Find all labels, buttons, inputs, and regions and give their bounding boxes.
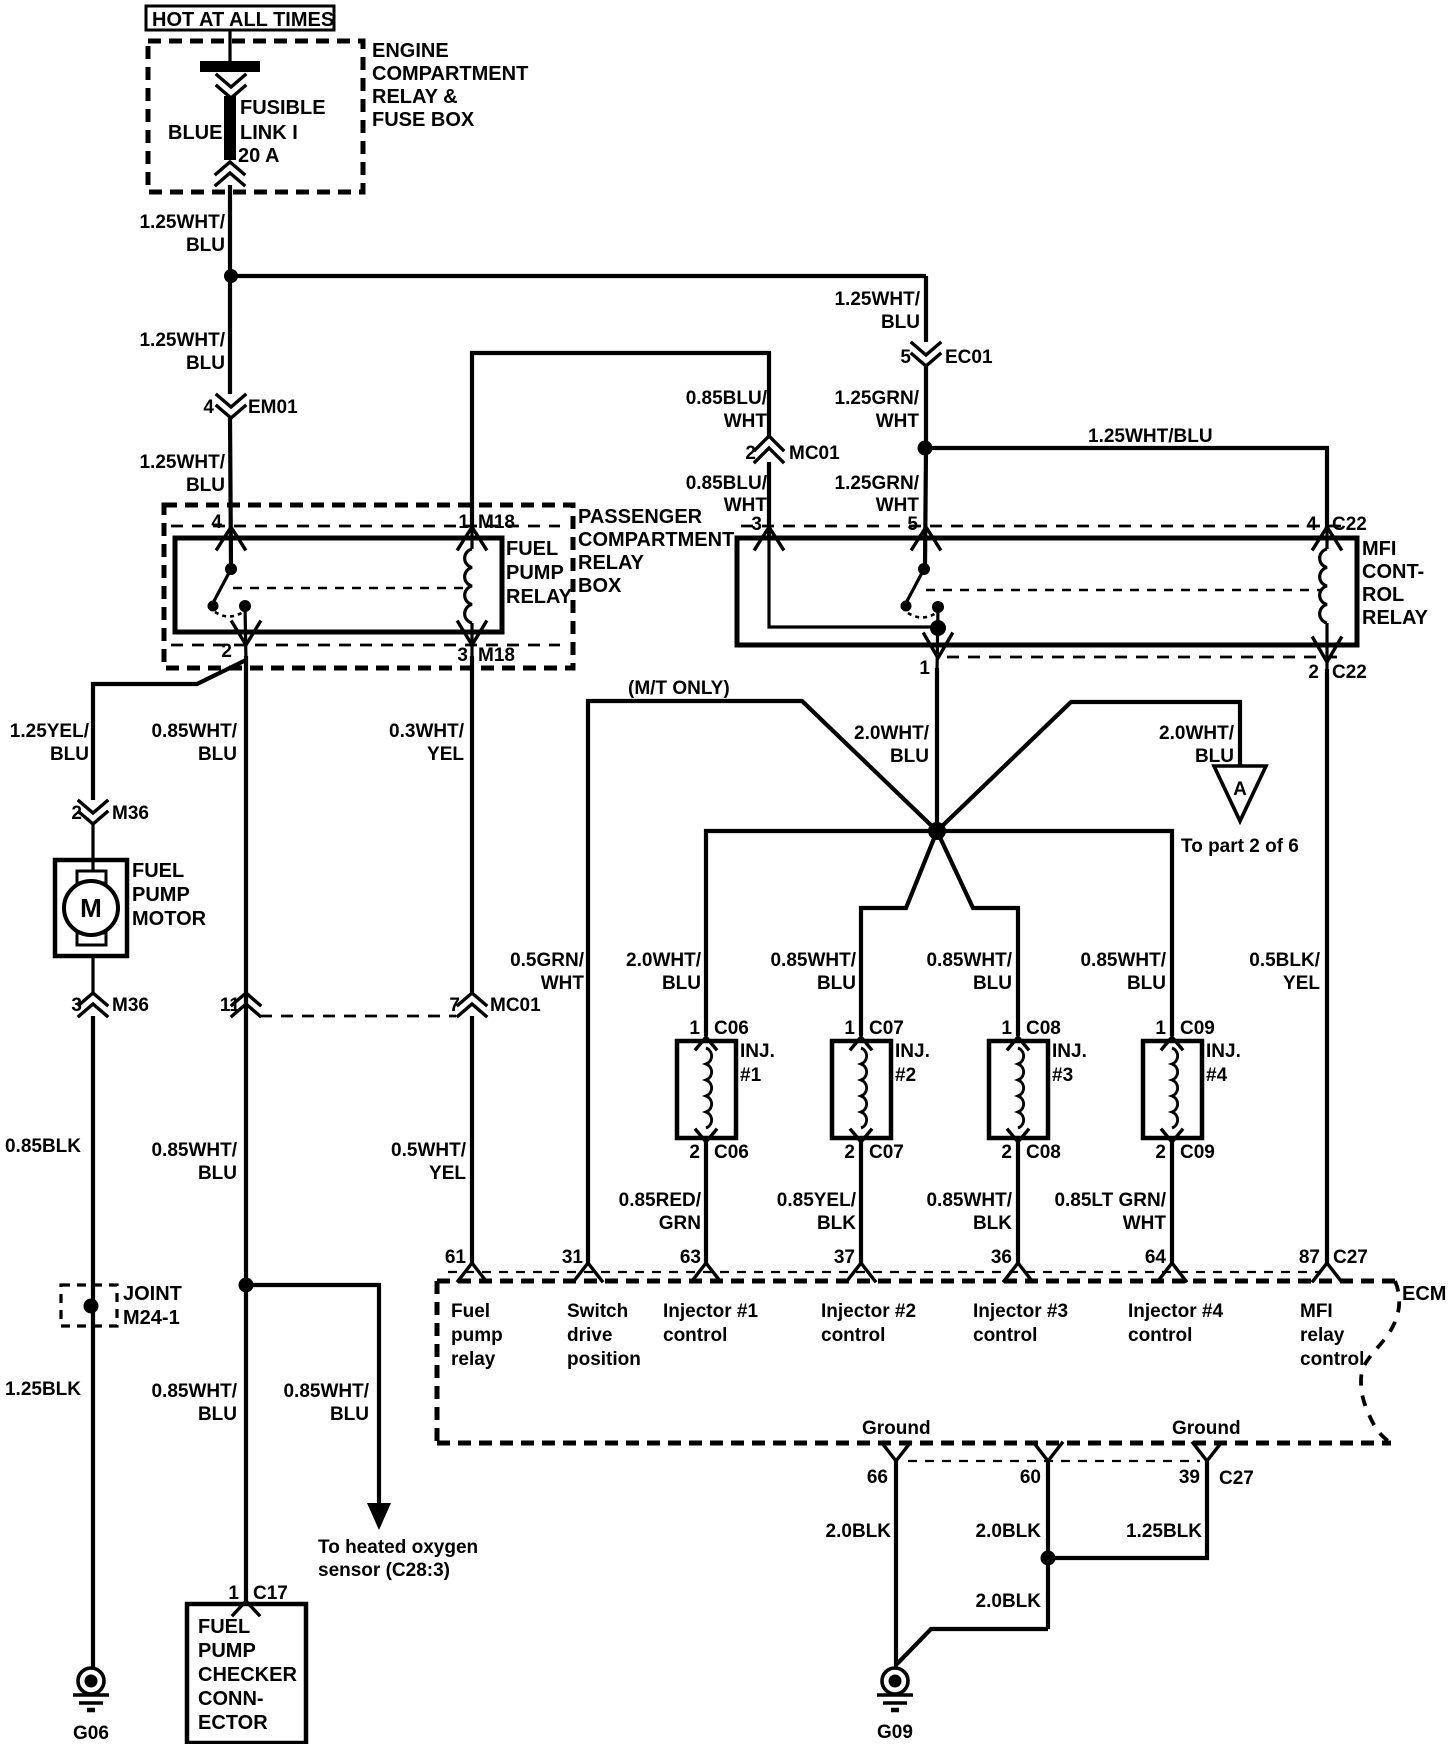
- label To heated oxygen sensor (C28:3): [318, 1537, 478, 1581]
- MFI switch common post: [918, 563, 930, 575]
- svg-text:EM01: EM01: [248, 397, 298, 418]
- injector #1: [677, 1018, 775, 1163]
- ECM pin 31: [562, 1247, 602, 1281]
- connector C17 pin 1: [228, 1583, 287, 1615]
- svg-text:CHECKER: CHECKER: [198, 1664, 297, 1686]
- svg-text:BLU: BLU: [817, 973, 856, 994]
- injector #2: [832, 1018, 930, 1163]
- junction to oxygen sensor branch: [239, 1278, 254, 1293]
- svg-text:FUSIBLE: FUSIBLE: [240, 97, 326, 119]
- svg-text:0.85WHT/: 0.85WHT/: [926, 1190, 1012, 1211]
- svg-text:63: 63: [680, 1247, 701, 1268]
- svg-text:control: control: [663, 1325, 727, 1346]
- svg-text:20 A: 20 A: [238, 145, 280, 167]
- pin 4 C22 label: [1306, 514, 1366, 535]
- engine compartment relay &amp; fuse box (dashed enclosure): [148, 41, 363, 192]
- connector EC01 pin 5: [900, 343, 993, 368]
- label 2.0WHT/BLU: [854, 723, 930, 767]
- wire junction down to MFI pin 5: [925, 448, 926, 567]
- wire EC01 drop: [924, 276, 928, 342]
- svg-text:YEL: YEL: [427, 744, 464, 765]
- node HOT AT ALL TIMES: [146, 6, 334, 31]
- svg-text:BLU: BLU: [890, 746, 929, 767]
- junction: [918, 441, 933, 456]
- wire ECM 60 to ground junction: [1046, 1461, 1050, 1629]
- svg-text:Injector #2: Injector #2: [821, 1301, 916, 1322]
- wire MC01 to MFI pin 3: [767, 462, 771, 538]
- star node junction: [928, 822, 946, 840]
- svg-text:C09: C09: [1180, 1018, 1215, 1039]
- ECM pin 64: [1145, 1247, 1186, 1281]
- svg-text:control: control: [1300, 1349, 1364, 1370]
- svg-text:1: 1: [844, 1018, 855, 1039]
- svg-text:WHT: WHT: [724, 495, 768, 516]
- svg-text:WHT: WHT: [541, 973, 585, 994]
- svg-text:FUEL: FUEL: [506, 538, 558, 560]
- svg-text:M36: M36: [112, 995, 149, 1016]
- wire contact to pin 1: [937, 607, 938, 672]
- connector M36 pin 3: [71, 993, 149, 1016]
- svg-text:0.85LT GRN/: 0.85LT GRN/: [1054, 1190, 1166, 1211]
- label ENGINE COMPARTMENT RELAY &amp; FUSE BOX: [372, 40, 528, 131]
- wire motor to M36 pin 3: [91, 956, 94, 992]
- svg-text:Ground: Ground: [1172, 1418, 1241, 1439]
- label PASSENGER COMPARTMENT RELAY BOX: [578, 506, 734, 597]
- wire branch to heated oxygen sensor: [246, 1285, 379, 1505]
- label 0.85WHT/BLU: [151, 1140, 237, 1184]
- svg-text:4: 4: [203, 397, 214, 418]
- svg-text:BLU: BLU: [662, 973, 701, 994]
- svg-text:WHT: WHT: [1123, 1213, 1167, 1234]
- label 1.25WHT/BLU: [139, 330, 225, 374]
- label 0.85WHT/BLU: [1080, 950, 1166, 994]
- svg-text:To heated oxygen: To heated oxygen: [318, 1537, 478, 1558]
- svg-text:MFI: MFI: [1300, 1301, 1333, 1322]
- svg-text:C22: C22: [1332, 662, 1367, 683]
- label 0.85WHT/BLU: [151, 1381, 237, 1425]
- svg-text:(M/T ONLY): (M/T ONLY): [628, 678, 730, 699]
- connector chevron (fusible link bottom): [216, 162, 244, 174]
- relay switch blade: [213, 569, 231, 603]
- relay switch contact left: [208, 601, 219, 612]
- svg-text:1.25WHT/: 1.25WHT/: [139, 452, 225, 473]
- wire star to injector 1: [706, 831, 937, 1036]
- svg-text:drive: drive: [567, 1325, 612, 1346]
- wire ECM 39 to junction: [1048, 1461, 1207, 1558]
- svg-text:BLU: BLU: [881, 312, 920, 333]
- svg-text:2: 2: [221, 641, 232, 662]
- label 0.85WHT/BLU: [770, 950, 856, 994]
- ECM pin 61: [445, 1247, 486, 1281]
- svg-text:Switch: Switch: [567, 1301, 628, 1322]
- svg-text:BLU: BLU: [198, 1404, 237, 1425]
- wire injector4 to ECM 64: [1170, 1142, 1174, 1264]
- label 0.85BLU/WHT: [686, 388, 768, 432]
- svg-text:4: 4: [1306, 514, 1317, 535]
- svg-text:1: 1: [1155, 1018, 1166, 1039]
- svg-text:M18: M18: [478, 645, 515, 666]
- svg-text:BLU: BLU: [1195, 746, 1234, 767]
- passenger compartment relay box (dashed enclosure): [164, 505, 573, 668]
- svg-text:2.0BLK: 2.0BLK: [976, 1591, 1042, 1612]
- pin 2 chevron: [232, 622, 260, 645]
- svg-text:0.85BLU/: 0.85BLU/: [686, 388, 768, 409]
- svg-text:RELAY: RELAY: [1362, 607, 1429, 629]
- label Injector #1 control: [663, 1301, 758, 1346]
- svg-text:PUMP: PUMP: [132, 884, 190, 906]
- connector M36 pin 2: [71, 801, 149, 824]
- relay coil (MFI control relay): [1320, 528, 1327, 672]
- svg-text:BLU: BLU: [198, 744, 237, 765]
- svg-text:INJ.: INJ.: [895, 1041, 930, 1062]
- label MFI relay control: [1300, 1301, 1364, 1370]
- label 0.85RED/GRN: [619, 1190, 702, 1234]
- svg-text:FUEL: FUEL: [198, 1616, 250, 1638]
- label 0.85LT GRN/WHT: [1054, 1190, 1166, 1234]
- wire M36 to motor: [91, 824, 94, 874]
- svg-text:1.25WHT/: 1.25WHT/: [139, 212, 225, 233]
- svg-text:BLK: BLK: [817, 1213, 856, 1234]
- svg-text:PUMP: PUMP: [506, 562, 564, 584]
- label Fuel pump relay: [451, 1301, 503, 1370]
- relay linkage (dashed): [233, 587, 466, 590]
- svg-text:1.25BLK: 1.25BLK: [1126, 1521, 1202, 1542]
- svg-text:1: 1: [1001, 1018, 1012, 1039]
- label 0.85WHT/BLU: [283, 1381, 369, 1425]
- injector #4: [1143, 1018, 1241, 1163]
- svg-text:YEL: YEL: [429, 1163, 466, 1184]
- MFI switch blade: [906, 569, 924, 603]
- MFI control relay K2 box: [737, 538, 1357, 645]
- svg-text:31: 31: [562, 1247, 584, 1268]
- label JOINT M24-1: [123, 1283, 182, 1329]
- label 1.25WHT/BLU: [834, 289, 920, 333]
- fuel pump checker connector box: [187, 1604, 306, 1743]
- switch throw arc (dashed): [215, 612, 243, 617]
- wire injector1 to ECM 63: [704, 1142, 708, 1264]
- fuel pump motor M: [55, 860, 127, 956]
- pin 3 M18 label: [457, 645, 515, 666]
- svg-text:2: 2: [689, 1142, 700, 1163]
- svg-text:C17: C17: [253, 1583, 288, 1604]
- svg-text:60: 60: [1020, 1467, 1041, 1488]
- label 1.25GRN/WHT: [835, 388, 920, 432]
- svg-text:C08: C08: [1026, 1018, 1061, 1039]
- svg-text:0.5WHT/: 0.5WHT/: [391, 1140, 467, 1161]
- svg-text:BLU: BLU: [50, 744, 89, 765]
- ECM pin 36: [991, 1247, 1032, 1281]
- svg-text:BLU: BLU: [186, 475, 225, 496]
- svg-text:relay: relay: [1300, 1325, 1345, 1346]
- svg-text:ENGINE: ENGINE: [372, 40, 449, 62]
- label FUEL PUMP CHECKER CONNECTOR: [198, 1616, 297, 1734]
- svg-text:Injector #3: Injector #3: [973, 1301, 1068, 1322]
- pin 2 C22 label: [1308, 662, 1366, 683]
- svg-text:2.0BLK: 2.0BLK: [976, 1521, 1042, 1542]
- svg-text:2.0WHT/: 2.0WHT/: [854, 723, 930, 744]
- svg-text:1.25YEL/: 1.25YEL/: [10, 721, 90, 742]
- svg-text:WHT: WHT: [724, 411, 768, 432]
- wire MC01 pin7 to ECM 61: [470, 1016, 474, 1264]
- label 0.3WHT/YEL: [389, 721, 465, 765]
- pin 4 chevron: [217, 527, 245, 549]
- svg-text:WHT: WHT: [876, 495, 920, 516]
- label Switch drive position: [567, 1301, 641, 1370]
- svg-text:MFI: MFI: [1362, 538, 1396, 560]
- svg-text:C08: C08: [1026, 1142, 1061, 1163]
- pin 2 C22 chevron: [1313, 638, 1341, 662]
- svg-text:66: 66: [867, 1467, 888, 1488]
- svg-text:BLU: BLU: [973, 973, 1012, 994]
- svg-text:64: 64: [1145, 1247, 1167, 1268]
- svg-text:BLU: BLU: [198, 1163, 237, 1184]
- svg-text:control: control: [973, 1325, 1037, 1346]
- MFI linkage (dashed): [926, 589, 1321, 592]
- wire fusible link to junction: [228, 185, 232, 276]
- connector pin 11: [220, 993, 260, 1016]
- svg-text:#4: #4: [1206, 1065, 1228, 1086]
- connector row C22 top: [741, 525, 1344, 528]
- svg-text:JOINT: JOINT: [123, 1283, 182, 1305]
- svg-text:Injector #1: Injector #1: [663, 1301, 758, 1322]
- ground G09: [877, 1668, 913, 1743]
- ECM top pin row (dashed): [448, 1271, 1320, 1273]
- pin 5 chevron: [912, 527, 940, 549]
- wire junction to EC01 branch (horizontal): [231, 274, 926, 278]
- injector #3: [989, 1018, 1087, 1163]
- svg-text:To part 2 of 6: To part 2 of 6: [1181, 836, 1299, 857]
- svg-text:39: 39: [1179, 1467, 1200, 1488]
- svg-text:36: 36: [991, 1247, 1012, 1268]
- svg-text:0.5GRN/: 0.5GRN/: [510, 950, 585, 971]
- svg-text:3: 3: [457, 645, 468, 666]
- label 0.85YEL/BLK: [777, 1190, 857, 1234]
- svg-text:C07: C07: [869, 1142, 904, 1163]
- svg-text:relay: relay: [451, 1349, 496, 1370]
- wire M36 pin3 to joint M24-1: [91, 1016, 95, 1668]
- svg-text:87: 87: [1299, 1247, 1320, 1268]
- svg-text:0.85WHT/: 0.85WHT/: [283, 1381, 369, 1402]
- connector row M18 top: [171, 525, 560, 528]
- connector MC01 pin 2: [745, 436, 840, 464]
- svg-text:2: 2: [1308, 662, 1319, 683]
- svg-text:C22: C22: [1332, 514, 1367, 535]
- label 0.5BLK/YEL: [1249, 950, 1320, 994]
- svg-text:1.25WHT/BLU: 1.25WHT/BLU: [1088, 426, 1213, 447]
- svg-text:COMPARTMENT: COMPARTMENT: [578, 529, 734, 551]
- svg-text:M24-1: M24-1: [123, 1307, 180, 1329]
- wire contact to pin 2: [245, 606, 246, 662]
- svg-text:Ground: Ground: [862, 1418, 931, 1439]
- svg-text:4: 4: [211, 512, 222, 533]
- svg-text:EC01: EC01: [945, 347, 993, 368]
- svg-text:LINK I: LINK I: [240, 122, 298, 144]
- svg-text:ECTOR: ECTOR: [198, 1712, 268, 1734]
- svg-text:0.85BLK: 0.85BLK: [5, 1136, 81, 1157]
- svg-text:control: control: [821, 1325, 885, 1346]
- svg-text:YEL: YEL: [1283, 973, 1320, 994]
- label 0.85BLU/WHT: [686, 473, 768, 516]
- ground junction: [1041, 1551, 1056, 1566]
- ECM pin 63: [680, 1247, 720, 1281]
- relay coil (fuel pump relay): [465, 528, 472, 660]
- ECM pin 87 C27: [1299, 1247, 1368, 1281]
- wire M18 pin1 up and over to MC01: [472, 353, 769, 528]
- label MFI CONTROL RELAY: [1362, 538, 1429, 629]
- svg-text:0.85BLU/: 0.85BLU/: [686, 473, 768, 494]
- svg-text:BLK: BLK: [973, 1213, 1012, 1234]
- svg-text:BLU: BLU: [330, 1404, 369, 1425]
- svg-text:C07: C07: [869, 1018, 904, 1039]
- svg-text:MC01: MC01: [789, 443, 840, 464]
- connector row 11 to 7 (dashed): [260, 1015, 456, 1018]
- pin 3 chevron: [458, 622, 486, 645]
- svg-text:GRN: GRN: [659, 1213, 701, 1234]
- power bus bar: [200, 61, 260, 72]
- ECM bottom pin row (dashed): [908, 1460, 1200, 1462]
- svg-text:BLU: BLU: [186, 353, 225, 374]
- svg-text:0.85WHT/: 0.85WHT/: [151, 721, 237, 742]
- connector chevron (bus to fusible link): [217, 75, 245, 87]
- svg-text:1.25GRN/: 1.25GRN/: [835, 473, 920, 494]
- ECM pin 37: [834, 1247, 875, 1281]
- label Injector #3 control: [973, 1301, 1068, 1346]
- label FUEL PUMP MOTOR: [132, 860, 207, 930]
- svg-text:M36: M36: [112, 803, 149, 824]
- pin 4 chevron: [1313, 527, 1341, 549]
- pin 1 chevron: [458, 527, 486, 549]
- wire MFI pin3 internal: [769, 528, 938, 627]
- connector row C22 bottom: [947, 656, 1344, 659]
- label Injector #2 control: [821, 1301, 916, 1346]
- wire pin2 branch to fuel pump motor (diagonal): [93, 660, 246, 800]
- svg-text:1.25BLK: 1.25BLK: [5, 1379, 81, 1400]
- svg-text:BLU: BLU: [186, 235, 225, 256]
- label Injector #4 control: [1128, 1301, 1223, 1346]
- connector row M18 bottom: [171, 644, 560, 647]
- svg-text:ROL: ROL: [1362, 584, 1404, 606]
- svg-text:sensor (C28:3): sensor (C28:3): [318, 1560, 450, 1581]
- relay switch contact right: [239, 600, 251, 612]
- svg-text:C27: C27: [1333, 1247, 1368, 1268]
- svg-text:3: 3: [751, 514, 762, 535]
- svg-text:HOT AT ALL TIMES: HOT AT ALL TIMES: [152, 9, 334, 31]
- label 0.85WHT/BLU: [926, 950, 1012, 994]
- svg-text:#3: #3: [1052, 1065, 1073, 1086]
- svg-text:position: position: [567, 1349, 641, 1370]
- wire from HOT feed to bus bar: [228, 30, 231, 62]
- svg-text:0.3WHT/: 0.3WHT/: [389, 721, 465, 742]
- label 0.5WHT/YEL: [391, 1140, 467, 1184]
- label 1.25WHT/BLU: [139, 212, 225, 256]
- wire C22 pin2 to ECM 87: [1325, 669, 1329, 1264]
- label 2.0WHT/BLU: [1159, 723, 1235, 767]
- ECM pin 66: [867, 1443, 910, 1488]
- label FUEL PUMP RELAY: [506, 538, 573, 608]
- wire star to injector 2: [861, 831, 937, 1036]
- svg-text:0.85WHT/: 0.85WHT/: [1080, 950, 1166, 971]
- svg-text:CONT-: CONT-: [1362, 561, 1424, 583]
- svg-text:ECM: ECM: [1402, 1283, 1446, 1305]
- svg-text:0.85WHT/: 0.85WHT/: [151, 1381, 237, 1402]
- svg-text:0.5BLK/: 0.5BLK/: [1249, 950, 1320, 971]
- fusible link I 20A (BLUE): [224, 96, 236, 160]
- svg-text:37: 37: [834, 1247, 855, 1268]
- off-page connector A: [1214, 766, 1266, 821]
- MFI switch contact left: [901, 601, 912, 612]
- svg-text:1: 1: [919, 658, 930, 679]
- svg-text:C09: C09: [1180, 1142, 1215, 1163]
- ground G06: [73, 1668, 109, 1744]
- wire junction down to EM01: [228, 276, 232, 394]
- pin 1 M18 label: [458, 512, 515, 533]
- wire junction to C22 pin 4 (horizontal): [925, 448, 1327, 528]
- svg-text:2.0BLK: 2.0BLK: [826, 1521, 892, 1542]
- svg-text:BLU: BLU: [1127, 973, 1166, 994]
- svg-text:FUEL: FUEL: [132, 860, 184, 882]
- wire star to injector 3: [937, 831, 1018, 1036]
- svg-text:COMPARTMENT: COMPARTMENT: [372, 63, 528, 85]
- label 1.25YEL/BLU: [10, 721, 90, 765]
- wire injector3 to ECM 36: [1016, 1142, 1020, 1264]
- svg-text:INJ.: INJ.: [740, 1041, 775, 1062]
- svg-text:1.25WHT/: 1.25WHT/: [834, 289, 920, 310]
- wire pin2 down (0.85WHT/BLU): [244, 656, 248, 1602]
- svg-text:C06: C06: [714, 1142, 749, 1163]
- relay switch common post: [225, 563, 237, 575]
- wire EC01 to junction: [924, 366, 928, 448]
- svg-text:61: 61: [445, 1247, 467, 1268]
- svg-text:#1: #1: [740, 1065, 762, 1086]
- svg-text:2: 2: [844, 1142, 855, 1163]
- pin 3 chevron: [755, 527, 783, 549]
- svg-text:CONN-: CONN-: [198, 1688, 264, 1710]
- svg-text:0.85YEL/: 0.85YEL/: [777, 1190, 857, 1211]
- connector MC01 pin 7: [449, 993, 541, 1016]
- label 2.0WHT/BLU: [626, 950, 702, 994]
- svg-text:MC01: MC01: [490, 995, 541, 1016]
- svg-text:RELAY: RELAY: [578, 552, 645, 574]
- MFI switch contact right: [932, 601, 944, 613]
- svg-text:BOX: BOX: [578, 575, 622, 597]
- svg-text:G09: G09: [877, 1722, 913, 1743]
- wire EM01 to relay pin 4: [230, 418, 231, 567]
- label 0.85WHT/BLU: [151, 721, 237, 765]
- ECM (dashed enclosure): [437, 1281, 1446, 1444]
- svg-text:control: control: [1128, 1325, 1192, 1346]
- svg-text:C27: C27: [1219, 1468, 1254, 1489]
- svg-text:G06: G06: [73, 1723, 109, 1744]
- svg-text:M18: M18: [478, 512, 515, 533]
- svg-text:WHT: WHT: [876, 411, 920, 432]
- svg-text:INJ.: INJ.: [1052, 1041, 1087, 1062]
- svg-text:1.25WHT/: 1.25WHT/: [139, 330, 225, 351]
- junction pin 1: [930, 620, 946, 636]
- ECM pin 60: [1020, 1443, 1062, 1488]
- svg-text:A: A: [1233, 779, 1247, 800]
- label 0.5GRN/WHT: [510, 950, 585, 994]
- junction: [224, 269, 238, 283]
- svg-text:2.0WHT/: 2.0WHT/: [626, 950, 702, 971]
- label 0.85WHT/BLK: [926, 1190, 1012, 1234]
- svg-text:#2: #2: [895, 1065, 916, 1086]
- svg-text:2: 2: [1001, 1142, 1012, 1163]
- svg-text:1: 1: [228, 1583, 239, 1604]
- fuel pump relay K1 box: [175, 538, 502, 632]
- label 1.25GRN/WHT: [835, 473, 920, 516]
- wire 60 to G09: [897, 1629, 1048, 1664]
- ECM pin 39 C27: [1179, 1443, 1254, 1489]
